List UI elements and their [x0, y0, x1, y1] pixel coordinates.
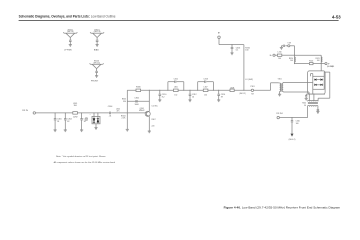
svg-text:150: 150: [204, 94, 207, 96]
svg-text:10: 10: [192, 97, 194, 99]
svg-text:1000: 1000: [134, 104, 138, 106]
svg-text:BIAS: BIAS: [94, 49, 99, 52]
svg-text:LP FWD: LP FWD: [64, 50, 72, 52]
svg-text:T301: T301: [278, 78, 282, 80]
svg-text:All component values shown are: All component values shown are for the 4…: [54, 161, 116, 164]
svg-text:R322: R322: [309, 61, 313, 63]
svg-text:M9642: M9642: [139, 110, 144, 112]
svg-text:C304: C304: [108, 106, 113, 108]
svg-text:L307: L307: [204, 87, 208, 89]
svg-text:100: 100: [290, 60, 293, 62]
svg-text:R307: R307: [152, 119, 156, 121]
svg-text:100: 100: [245, 50, 248, 52]
svg-text:4-53: 4-53: [332, 15, 341, 20]
svg-text:0.1: 0.1: [236, 50, 239, 52]
svg-text:39: 39: [221, 97, 223, 99]
svg-text:1/2W: 1/2W: [73, 116, 78, 118]
svg-text:L310: L310: [278, 52, 282, 54]
svg-text:100: 100: [278, 58, 281, 60]
svg-text:100: 100: [317, 60, 320, 62]
svg-text:*: *: [90, 114, 91, 116]
svg-text:LO (SH2): LO (SH2): [245, 79, 253, 81]
svg-text:8.2: 8.2: [162, 97, 165, 99]
svg-text:FRONT: FRONT: [91, 81, 99, 83]
svg-text:220: 220: [152, 125, 155, 127]
svg-text:390: 390: [74, 105, 77, 107]
svg-text:R306: R306: [136, 87, 141, 89]
svg-text:150: 150: [174, 94, 177, 96]
svg-text:Note: * this symbol denotes a: Note: * this symbol denotes an RF test p…: [56, 155, 106, 158]
svg-text:IF: IF: [328, 64, 330, 66]
svg-text:RX IN: RX IN: [22, 110, 28, 112]
svg-text:L308: L308: [230, 87, 234, 89]
svg-text:C306: C306: [134, 98, 139, 100]
svg-text:301: 301: [85, 120, 88, 122]
svg-text:C311: C311: [174, 78, 178, 80]
svg-text:Schematic Diagrams, Overlays,: Schematic Diagrams, Overlays, and Parts …: [19, 15, 116, 19]
svg-text:P301: P301: [251, 86, 255, 88]
svg-text:50: 50: [304, 105, 306, 107]
svg-text:47n: 47n: [116, 111, 119, 113]
svg-text:RX INJ: RX INJ: [276, 113, 282, 115]
svg-text:(SH 2-4): (SH 2-4): [327, 66, 333, 68]
svg-text:100: 100: [296, 123, 299, 125]
svg-text:(SH 2-2): (SH 2-2): [239, 93, 246, 95]
svg-text:5.0 VDC: 5.0 VDC: [152, 106, 159, 108]
svg-text:C313: C313: [203, 78, 208, 80]
svg-text:L305: L305: [174, 87, 178, 89]
svg-text:Figure 4-40. Low Band (29.7-4: Figure 4-40. Low Band (29.7-42/35-50 MHz…: [224, 205, 341, 209]
svg-text:18: 18: [57, 121, 59, 123]
svg-text:B+: B+: [270, 55, 272, 57]
svg-text:330: 330: [123, 101, 126, 103]
svg-text:(SH 4-2): (SH 4-2): [289, 139, 296, 141]
svg-text:82: 82: [67, 121, 69, 123]
svg-text:.01: .01: [109, 116, 112, 118]
